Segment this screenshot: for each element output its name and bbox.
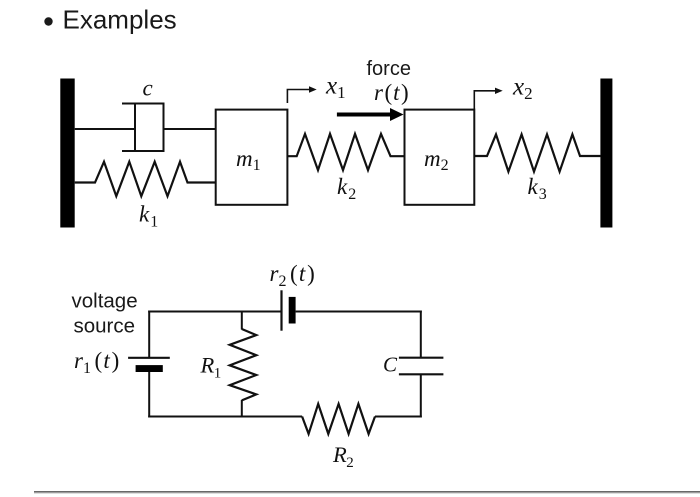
resistor R1	[230, 329, 257, 400]
svg-text:r2(t): r2(t)	[270, 261, 315, 290]
svg-text:k3: k3	[528, 174, 547, 203]
battery r1(t)	[128, 357, 170, 359]
svg-text:m1: m1	[236, 146, 261, 174]
svg-text:x2: x2	[512, 74, 533, 104]
wire: left vertical upper	[148, 311, 150, 358]
svg-text:R2: R2	[332, 442, 354, 471]
displacement marker x2	[474, 91, 495, 109]
wire: top horizontal left	[148, 311, 281, 313]
wire: right vertical upper	[420, 311, 422, 358]
right wall	[600, 79, 612, 228]
spring k3	[474, 134, 601, 171]
svg-text:r1(t): r1(t)	[74, 348, 119, 377]
wire: wall to damper piston	[75, 128, 135, 130]
svg-text:c: c	[143, 76, 153, 101]
damper c	[122, 103, 165, 152]
svg-text:r(t): r(t)	[374, 80, 409, 105]
svg-text:x1: x1	[325, 73, 346, 103]
svg-text:source: source	[74, 315, 136, 338]
wire: left vertical lower	[148, 372, 150, 418]
spring k2	[287, 134, 404, 170]
wire: right vertical lower	[420, 374, 422, 417]
wire: damper to mass m1	[164, 128, 217, 130]
svg-text:m2: m2	[424, 146, 449, 174]
force arrow	[337, 113, 392, 117]
wire: R1 branch top	[241, 311, 243, 330]
svg-text:Examples: Examples	[63, 5, 177, 35]
spring k1	[75, 162, 216, 197]
battery r2(t)	[280, 290, 282, 330]
wire: R1 branch bottom	[241, 400, 243, 418]
mass m1	[216, 110, 288, 205]
wire: top horizontal right	[296, 311, 422, 313]
left wall	[60, 79, 74, 228]
svg-text:voltage: voltage	[72, 290, 138, 313]
displacement marker x1	[287, 90, 309, 104]
wire: bottom horizontal left	[148, 416, 302, 418]
mass m2	[405, 110, 475, 205]
svg-text:force: force	[367, 58, 411, 80]
capacitor C	[399, 357, 444, 359]
svg-text:C: C	[383, 353, 398, 377]
bullet	[44, 17, 52, 25]
wire: bottom horizontal right	[375, 416, 422, 418]
svg-text:k2: k2	[337, 174, 356, 203]
footer rule	[34, 491, 700, 493]
resistor R2	[302, 404, 375, 434]
svg-text:k1: k1	[139, 202, 158, 231]
svg-text:R1: R1	[200, 353, 222, 382]
